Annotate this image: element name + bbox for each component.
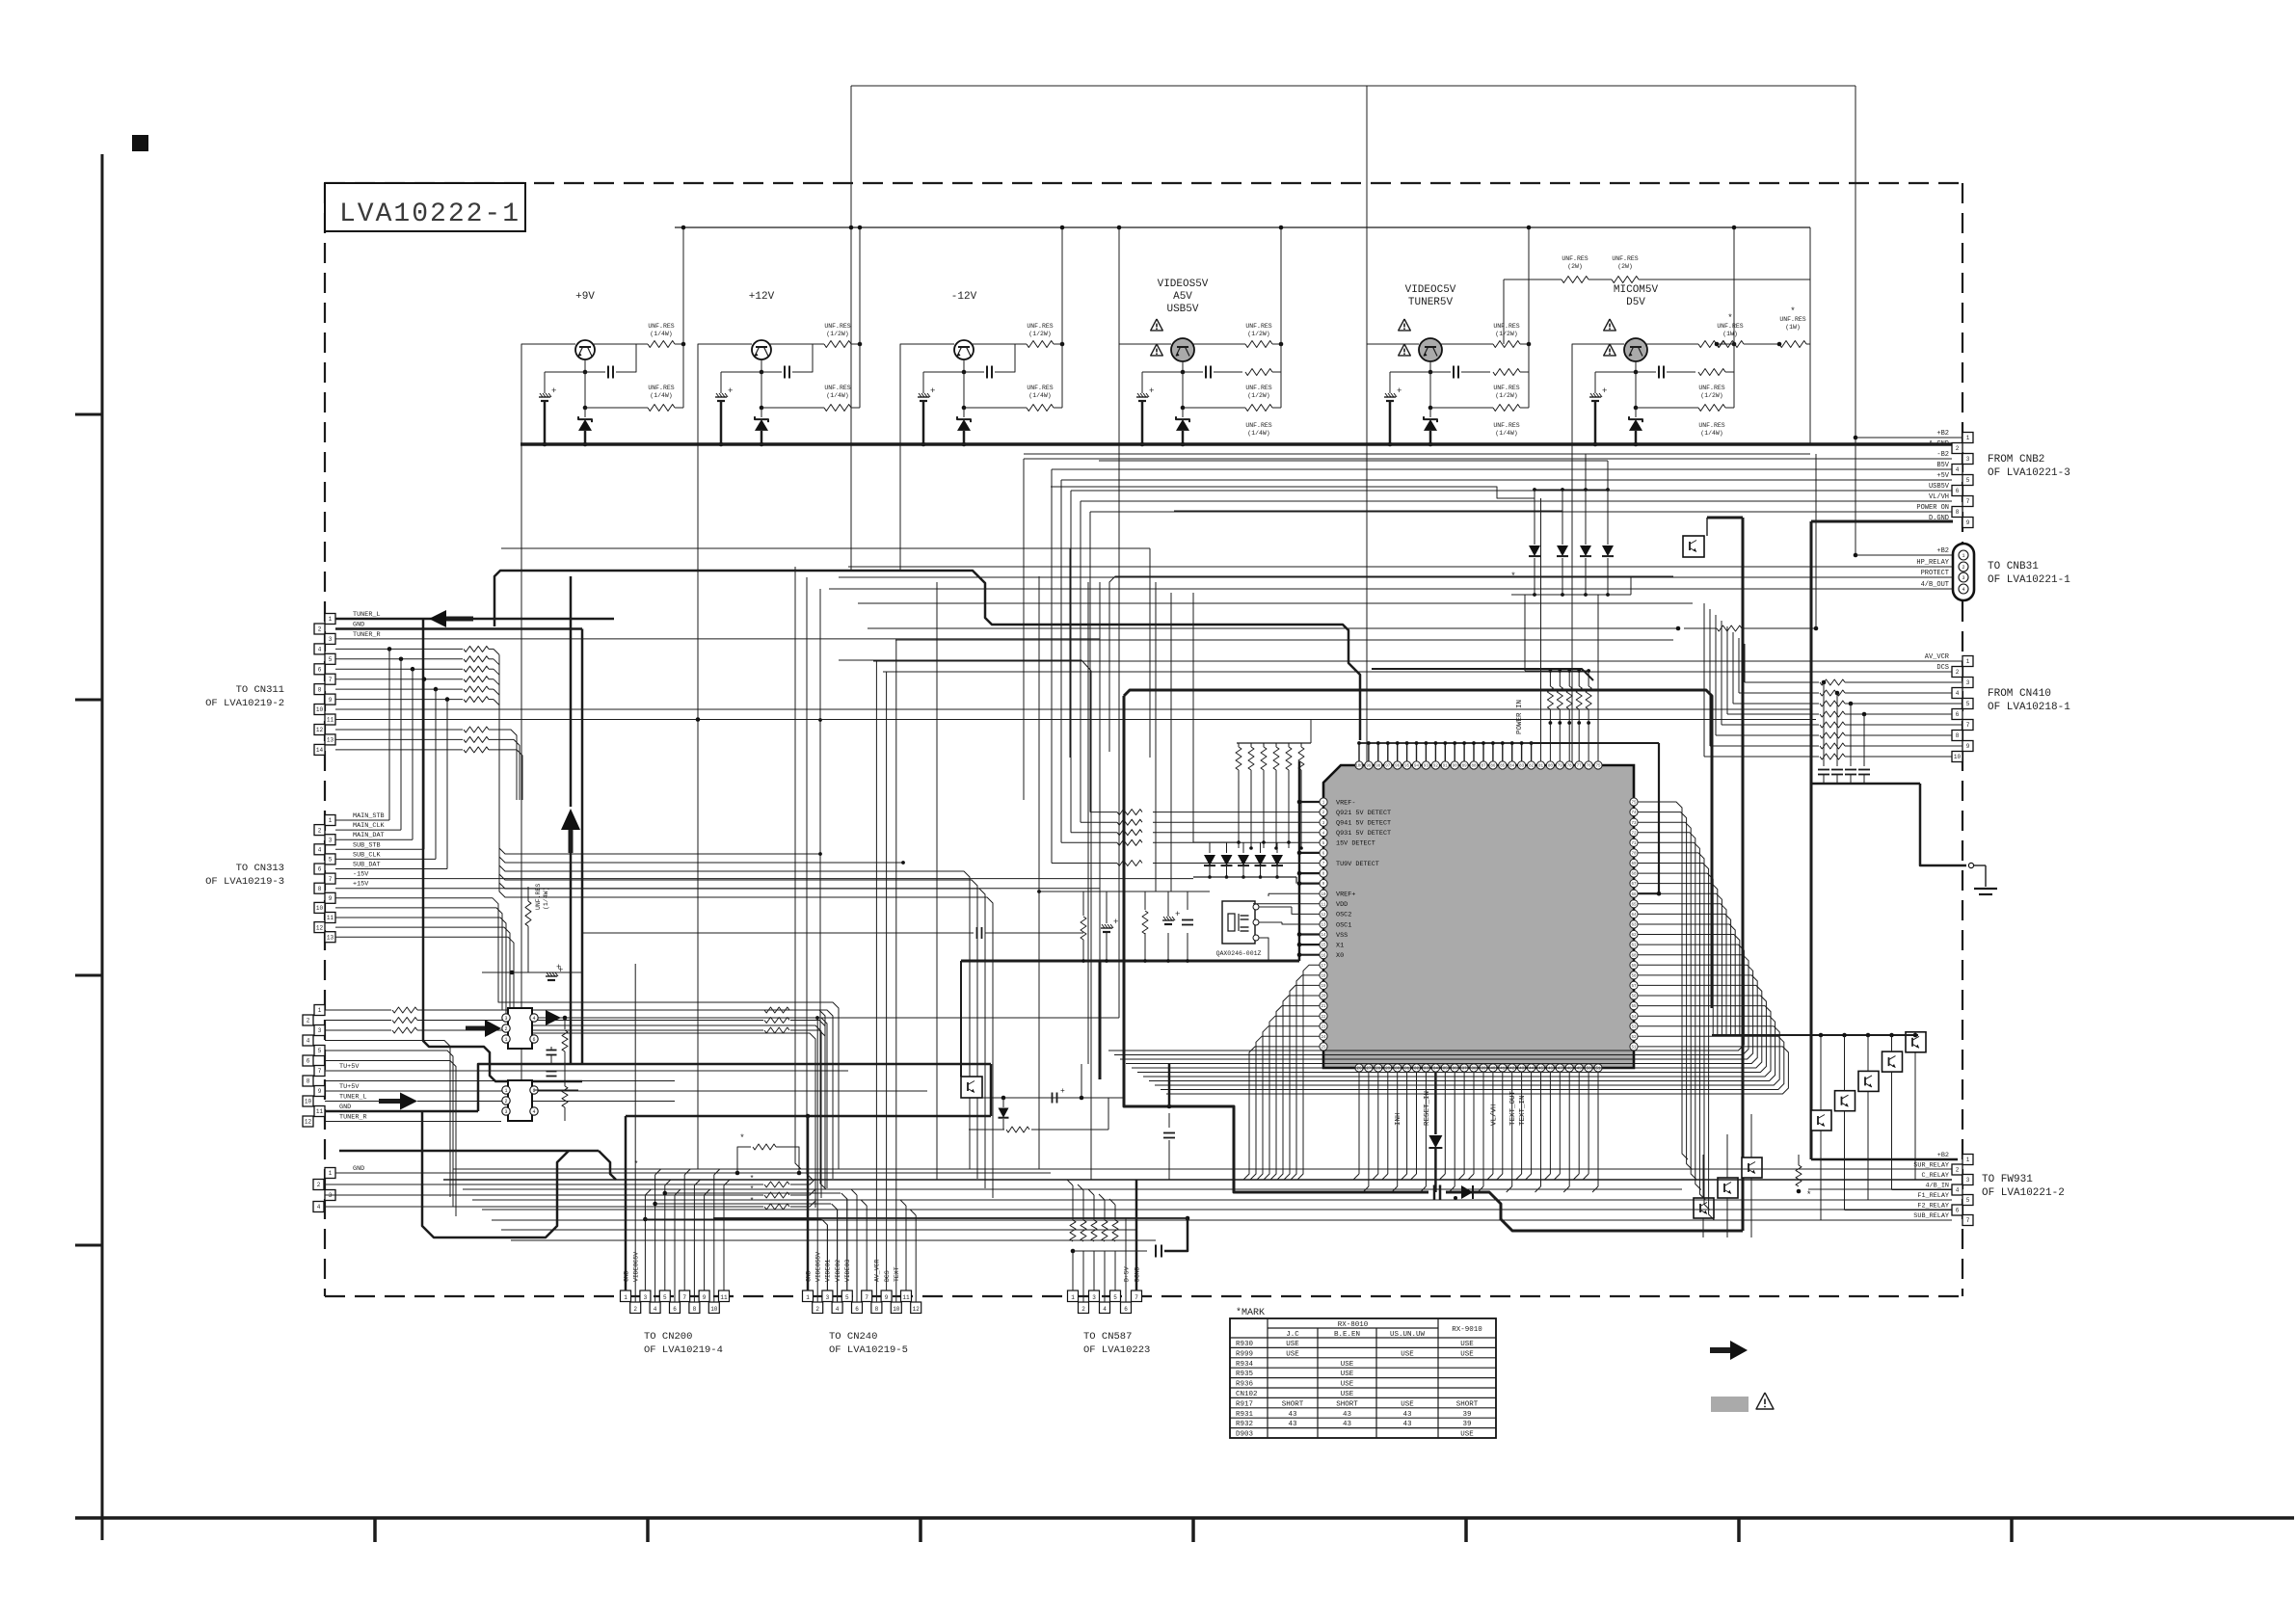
svg-text:R930: R930 [1236,1341,1254,1348]
svg-text:60: 60 [1631,954,1637,958]
svg-text:64: 64 [1631,914,1637,918]
svg-text:67: 67 [1631,883,1637,887]
svg-text:7: 7 [1135,1294,1138,1301]
svg-text:(1/4W): (1/4W) [1247,430,1269,437]
svg-text:1: 1 [329,616,333,623]
svg-text:+9V: +9V [575,291,595,303]
svg-text:3: 3 [1966,456,1970,463]
svg-text:VL/VH: VL/VH [1929,493,1949,501]
svg-text:RX-8010: RX-8010 [1338,1321,1369,1329]
svg-text:(1/4W): (1/4W) [650,331,672,337]
svg-text:52: 52 [1631,1036,1637,1040]
svg-text:43: 43 [1343,1421,1352,1428]
svg-text:MAIN_CLK: MAIN_CLK [353,822,386,830]
svg-text:7: 7 [1966,498,1970,505]
svg-text:85: 85 [1500,765,1506,769]
svg-text:2: 2 [317,1182,321,1188]
svg-text:9: 9 [329,895,333,902]
svg-text:TO CN200: TO CN200 [644,1331,692,1343]
svg-text:F2_RELAY: F2_RELAY [1917,1202,1949,1210]
svg-text:7: 7 [329,876,333,883]
svg-text:13: 13 [1321,924,1326,928]
svg-text:OF LVA10221-3: OF LVA10221-3 [1988,467,2070,479]
svg-text:+: + [556,963,561,972]
svg-text:55: 55 [1631,1005,1637,1009]
svg-text:(1/4W): (1/4W) [650,392,672,399]
svg-text:54: 54 [1631,1016,1637,1020]
svg-text:66: 66 [1631,893,1637,897]
svg-text:4: 4 [1956,690,1960,697]
svg-text:4: 4 [318,647,322,653]
svg-text:C_RELAY: C_RELAY [1921,1172,1949,1180]
svg-text:OF LVA10219-4: OF LVA10219-4 [644,1344,723,1356]
svg-text:89: 89 [1462,765,1468,769]
svg-text:TEXT_IN: TEXT_IN [1519,1095,1527,1126]
svg-text:79: 79 [1558,765,1563,769]
svg-text:9: 9 [1966,519,1970,526]
svg-text:Q921 5V DETECT: Q921 5V DETECT [1336,810,1391,817]
svg-text:UNF.RES: UNF.RES [1027,385,1053,391]
svg-text:5: 5 [1966,477,1970,484]
svg-text:TEXT_OUT: TEXT_OUT [1509,1090,1517,1126]
svg-text:3: 3 [504,1109,507,1115]
svg-text:9: 9 [703,1294,707,1301]
svg-text:11: 11 [316,1108,324,1115]
svg-text:6: 6 [532,1037,535,1043]
svg-text:59: 59 [1631,965,1637,969]
svg-text:6: 6 [318,866,322,873]
svg-text:1: 1 [1071,1294,1075,1301]
svg-text:USE: USE [1341,1381,1354,1389]
svg-text:8: 8 [307,1078,310,1085]
svg-text:(1/2W): (1/2W) [1700,392,1722,399]
svg-text:TO CNB31: TO CNB31 [1988,561,2039,572]
svg-text:TUNER5V: TUNER5V [1408,297,1454,308]
svg-text:LVA10222-1: LVA10222-1 [339,200,521,229]
svg-text:VSS: VSS [1336,932,1348,940]
svg-text:39: 39 [1462,1411,1471,1419]
svg-text:USB5V: USB5V [1929,483,1950,491]
svg-text:TO CN240: TO CN240 [829,1331,877,1343]
svg-text:*: * [1790,306,1795,316]
svg-text:4: 4 [654,1306,657,1313]
svg-text:43: 43 [1402,1411,1412,1419]
svg-text:(1/2W): (1/2W) [1247,392,1269,399]
svg-text:2: 2 [504,1099,507,1104]
svg-text:J.C: J.C [1286,1331,1299,1339]
svg-text:3: 3 [644,1294,648,1301]
svg-text:2: 2 [307,1018,310,1024]
svg-text:+: + [1397,386,1402,396]
svg-text:7: 7 [1966,722,1970,729]
svg-text:82: 82 [1529,765,1535,769]
svg-text:2: 2 [1956,1167,1960,1174]
svg-text:+: + [1149,386,1154,396]
svg-text:100: 100 [1355,765,1363,769]
svg-text:MAIN_DAT: MAIN_DAT [353,832,385,839]
svg-text:PROTECT: PROTECT [1921,570,1949,577]
svg-text:11: 11 [720,1294,728,1301]
svg-text:8: 8 [693,1306,697,1313]
svg-text:8: 8 [318,686,322,693]
svg-text:(1W): (1W) [1722,331,1738,337]
svg-text:96: 96 [1395,765,1401,769]
svg-text:69: 69 [1631,863,1637,866]
svg-text:B5V: B5V [1936,462,1949,469]
svg-text:USE: USE [1286,1341,1299,1348]
svg-text:43: 43 [1288,1411,1297,1419]
svg-text:14: 14 [316,747,324,754]
svg-text:*: * [634,1160,639,1169]
svg-text:71: 71 [1631,842,1637,846]
svg-text:(1/4W): (1/4W) [1495,430,1517,437]
svg-text:8: 8 [1956,732,1960,739]
svg-text:11: 11 [1321,903,1326,907]
svg-text:R932: R932 [1236,1421,1253,1428]
svg-text:78: 78 [1567,765,1573,769]
svg-text:UNF.RES: UNF.RES [1493,385,1519,391]
svg-text:3: 3 [1966,1177,1970,1184]
svg-text:-15V: -15V [353,871,369,879]
svg-text:+5V: +5V [1936,472,1949,480]
svg-text:UNF.RES: UNF.RES [1717,323,1743,330]
svg-text:HP_RELAY: HP_RELAY [1916,559,1949,567]
svg-text:FROM CNB2: FROM CNB2 [1988,454,2044,466]
svg-text:3: 3 [329,1192,333,1199]
svg-text:TEXT: TEXT [894,1266,900,1282]
svg-text:FROM CN410: FROM CN410 [1988,688,2051,700]
svg-text:A5V: A5V [1173,291,1192,303]
svg-text:5: 5 [329,857,333,864]
svg-text:R934: R934 [1236,1361,1254,1369]
svg-text:10: 10 [893,1306,900,1313]
svg-text:1: 1 [806,1294,810,1301]
svg-text:62: 62 [1631,934,1637,938]
svg-text:9: 9 [329,697,333,704]
svg-text:74: 74 [1631,811,1637,815]
svg-text:86: 86 [1490,765,1496,769]
svg-text:TO FW931: TO FW931 [1982,1174,2033,1185]
svg-text:4: 4 [1956,466,1960,473]
svg-text:TO CN313: TO CN313 [236,863,284,874]
svg-text:UNF.RES: UNF.RES [1245,422,1271,429]
svg-text:UNF.RES: UNF.RES [1698,422,1724,429]
svg-text:DCS: DCS [884,1270,891,1282]
svg-text:4/B_IN: 4/B_IN [1926,1182,1949,1189]
svg-text:21: 21 [1321,1005,1326,1009]
svg-text:10: 10 [1954,754,1962,760]
svg-text:58: 58 [1631,975,1637,979]
svg-text:84: 84 [1509,765,1515,769]
svg-text:12: 12 [316,727,324,733]
svg-text:DCS: DCS [1936,664,1949,672]
svg-text:8: 8 [1956,509,1960,516]
svg-text:X0: X0 [1336,952,1344,960]
svg-text:R999: R999 [1236,1350,1253,1358]
svg-text:VIDEOC5V: VIDEOC5V [633,1252,640,1282]
svg-text:4: 4 [836,1306,840,1313]
svg-text:10: 10 [316,706,324,713]
svg-text:12: 12 [913,1306,921,1313]
svg-text:VDD: VDD [1336,901,1348,909]
svg-text:TO CN311: TO CN311 [236,684,284,696]
svg-text:D+5V: D+5V [1123,1266,1130,1282]
svg-text:10: 10 [316,905,324,912]
svg-text:VIDEOS5V: VIDEOS5V [815,1252,822,1282]
svg-text:1: 1 [1966,435,1970,441]
svg-text:13: 13 [327,737,334,744]
svg-text:10: 10 [305,1099,312,1105]
svg-text:UNF.RES: UNF.RES [1493,422,1519,429]
svg-text:*: * [1806,1190,1811,1200]
svg-text:3: 3 [318,1027,322,1034]
svg-text:8: 8 [875,1306,879,1313]
svg-text:USE: USE [1460,1341,1474,1348]
svg-text:+12V: +12V [749,291,775,303]
svg-text:D.GND: D.GND [1929,515,1949,522]
svg-text:51: 51 [1631,1047,1637,1051]
svg-text:VREF-: VREF- [1336,799,1355,807]
svg-text:VL/VH: VL/VH [1490,1104,1498,1126]
svg-text:RX-9010: RX-9010 [1452,1326,1482,1334]
svg-text:UNF.RES: UNF.RES [1245,385,1271,391]
svg-text:2: 2 [318,827,322,834]
svg-text:6: 6 [1956,1208,1960,1214]
svg-text:USE: USE [1401,1400,1414,1408]
svg-text:SHORT: SHORT [1282,1400,1304,1408]
svg-text:1: 1 [1966,658,1970,665]
svg-text:-12V: -12V [951,291,977,303]
svg-text:MICOM5V: MICOM5V [1614,284,1659,296]
svg-text:1: 1 [318,1007,322,1014]
svg-text:AV_VCR: AV_VCR [1925,653,1950,661]
svg-text:OSC2: OSC2 [1336,912,1351,919]
svg-text:*: * [1727,313,1732,323]
svg-text:UNF.RES: UNF.RES [1698,385,1724,391]
svg-text:12: 12 [316,924,324,931]
svg-text:+B2: +B2 [1936,547,1949,555]
svg-text:US.UN.UW: US.UN.UW [1390,1331,1426,1339]
svg-text:+: + [551,386,556,396]
svg-text:3: 3 [1092,1294,1096,1301]
svg-text:90: 90 [1453,765,1458,769]
svg-text:A.GND: A.GND [1929,440,1949,448]
svg-text:TUNER_L: TUNER_L [339,1094,367,1102]
svg-text:43: 43 [1343,1411,1352,1419]
svg-text:Q931 5V DETECT: Q931 5V DETECT [1336,830,1391,838]
svg-text:USE: USE [1286,1350,1299,1358]
svg-text:UNF.RES: UNF.RES [824,323,850,330]
svg-text:3: 3 [1966,679,1970,686]
svg-text:UNF.RES: UNF.RES [1779,316,1805,323]
svg-text:USE: USE [1341,1391,1354,1398]
svg-text:3: 3 [1962,575,1964,581]
svg-text:61: 61 [1631,945,1637,948]
svg-text:13: 13 [327,934,334,941]
svg-text:6: 6 [1956,711,1960,718]
svg-text:95: 95 [1404,765,1410,769]
svg-text:1: 1 [1962,553,1964,559]
svg-text:6: 6 [318,667,322,674]
svg-text:3: 3 [329,837,333,843]
svg-text:VIDEO1: VIDEO1 [825,1259,832,1282]
svg-text:+: + [728,386,733,396]
svg-text:USB5V: USB5V [1166,304,1198,315]
svg-text:UNF.RES: UNF.RES [648,385,674,391]
svg-text:4: 4 [317,1204,321,1211]
svg-text:53: 53 [1631,1025,1637,1029]
svg-text:5: 5 [1966,701,1970,707]
svg-text:73: 73 [1631,822,1637,826]
svg-text:VIDEOC5V: VIDEOC5V [1405,284,1456,296]
svg-text:SUB_STB: SUB_STB [353,841,381,849]
svg-text:POWER ON: POWER ON [1916,504,1949,512]
svg-text:D903: D903 [1236,1431,1254,1439]
svg-text:(1/2W): (1/2W) [1495,392,1517,399]
svg-text:15V DETECT: 15V DETECT [1336,840,1375,848]
svg-text:7: 7 [865,1294,868,1301]
svg-text:6: 6 [673,1306,677,1313]
svg-text:68: 68 [1631,873,1637,877]
svg-text:4: 4 [1962,587,1964,593]
svg-text:56: 56 [1631,996,1637,999]
svg-text:6: 6 [855,1306,859,1313]
svg-text:75: 75 [1595,765,1601,769]
svg-text:B.E.EN: B.E.EN [1334,1331,1360,1339]
svg-text:83: 83 [1519,765,1525,769]
svg-text:MAIN_STB: MAIN_STB [353,812,385,820]
svg-text:4: 4 [307,1038,310,1045]
svg-text:+15V: +15V [353,881,369,889]
svg-text:VIDEO2: VIDEO2 [835,1259,841,1282]
svg-text:2: 2 [318,626,322,633]
svg-text:TU+5V: TU+5V [339,1063,360,1071]
svg-text:11: 11 [327,717,334,724]
svg-text:12: 12 [305,1119,312,1126]
svg-text:1: 1 [329,1170,333,1177]
svg-text:93: 93 [1424,765,1429,769]
svg-text:-B2: -B2 [1936,451,1949,459]
svg-text:SUB_RELAY: SUB_RELAY [1913,1212,1949,1220]
svg-text:4: 4 [532,1109,535,1115]
svg-text:UNF.RES: UNF.RES [824,385,850,391]
svg-text:OSC1: OSC1 [1336,921,1351,929]
svg-text:9: 9 [318,1088,322,1095]
svg-text:+: + [1602,386,1607,396]
svg-text:UNF.RES: UNF.RES [1562,255,1588,262]
svg-text:81: 81 [1538,765,1544,769]
svg-text:(1/2W): (1/2W) [1247,331,1269,337]
svg-text:CN102: CN102 [1236,1391,1258,1398]
svg-text:R917: R917 [1236,1400,1253,1408]
svg-text:OF LVA10221-2: OF LVA10221-2 [1982,1187,2065,1199]
svg-text:4: 4 [532,1016,535,1022]
svg-text:USE: USE [1401,1350,1414,1358]
svg-text:75: 75 [1631,802,1637,806]
svg-text:14: 14 [1321,934,1326,938]
svg-text:1: 1 [329,817,333,824]
svg-text:*: * [750,1197,755,1206]
svg-text:88: 88 [1471,765,1477,769]
svg-text:5: 5 [1113,1294,1117,1301]
svg-text:F1_RELAY: F1_RELAY [1917,1192,1949,1200]
svg-text:77: 77 [1577,765,1583,769]
svg-text:X1: X1 [1336,942,1344,949]
svg-text:+B2: +B2 [1937,1152,1949,1159]
svg-text:+: + [1175,910,1180,919]
svg-text:6: 6 [1956,488,1960,494]
svg-text:USE: USE [1341,1361,1354,1369]
svg-text:5: 5 [845,1294,849,1301]
svg-text:(1/2W): (1/2W) [1028,331,1051,337]
svg-text:AV_VCR: AV_VCR [874,1259,881,1282]
svg-text:9: 9 [885,1294,889,1301]
svg-text:65: 65 [1631,903,1637,907]
svg-text:5: 5 [329,656,333,663]
svg-text:2: 2 [504,1026,507,1032]
svg-text:Q941 5V DETECT: Q941 5V DETECT [1336,820,1391,828]
svg-text:RESET_IN: RESET_IN [1424,1091,1431,1126]
svg-text:VIDEO3: VIDEO3 [844,1259,851,1282]
svg-text:17: 17 [1321,965,1326,969]
svg-text:VREF+: VREF+ [1336,891,1355,899]
svg-text:87: 87 [1481,765,1486,769]
svg-text:QAX0246-001Z: QAX0246-001Z [1216,950,1262,957]
svg-text:UNF.RES: UNF.RES [1027,323,1053,330]
svg-text:2: 2 [1962,565,1964,571]
svg-text:TO CN587: TO CN587 [1083,1331,1132,1343]
svg-text:91: 91 [1443,765,1449,769]
svg-text:R935: R935 [1236,1370,1254,1378]
svg-text:UNF.RES: UNF.RES [1493,323,1519,330]
svg-text:22: 22 [1321,1016,1326,1020]
svg-text:5: 5 [318,1048,322,1054]
svg-text:10: 10 [710,1306,718,1313]
svg-text:(1/4W): (1/4W) [543,888,549,910]
svg-text:+B2: +B2 [1936,430,1949,438]
svg-text:(1/2W): (1/2W) [826,331,848,337]
svg-text:*: * [739,1133,744,1143]
svg-text:R931: R931 [1236,1411,1254,1419]
svg-text:6: 6 [307,1058,310,1065]
svg-text:1: 1 [504,1088,507,1094]
svg-text:+: + [930,386,935,396]
svg-text:OF LVA10221-1: OF LVA10221-1 [1988,574,2070,586]
svg-text:SUB_CLK: SUB_CLK [353,851,381,859]
svg-text:(2W): (2W) [1567,263,1583,270]
svg-text:2: 2 [815,1306,819,1313]
svg-text:92: 92 [1433,765,1439,769]
svg-text:3: 3 [826,1294,830,1301]
svg-text:5: 5 [663,1294,667,1301]
svg-text:UNF.RES: UNF.RES [1245,323,1271,330]
svg-text:+: + [1060,1087,1065,1096]
svg-text:97: 97 [1385,765,1391,769]
svg-text:USE: USE [1460,1350,1474,1358]
svg-text:18: 18 [1321,975,1326,979]
svg-text:OF LVA10218-1: OF LVA10218-1 [1988,702,2070,713]
svg-text:10: 10 [1321,893,1326,897]
svg-text:VIDEOS5V: VIDEOS5V [1158,279,1209,290]
svg-text:7: 7 [318,1068,322,1075]
svg-text:4: 4 [1956,1187,1960,1194]
svg-text:OF LVA10219-5: OF LVA10219-5 [829,1344,908,1356]
svg-text:11: 11 [327,915,334,921]
svg-text:7: 7 [329,677,333,683]
svg-text:12: 12 [1321,914,1326,918]
svg-text:6: 6 [1124,1306,1128,1313]
svg-text:INH: INH [1395,1112,1402,1126]
